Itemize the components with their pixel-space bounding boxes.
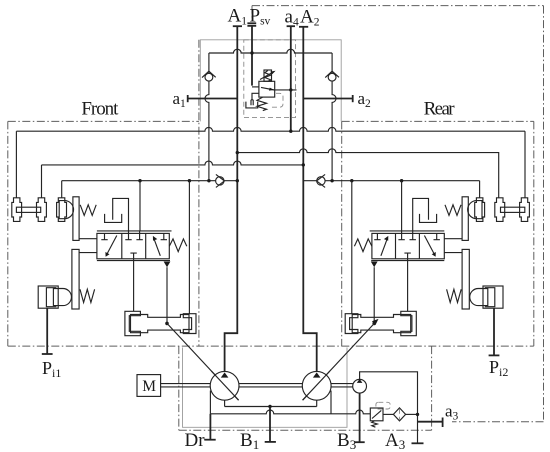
lower actuator piston cap D r <box>470 289 488 306</box>
svg-text:Dr: Dr <box>185 430 206 451</box>
port Pi1 line <box>46 308 48 354</box>
motor M box <box>137 375 161 397</box>
wire: filter to A3 rail <box>406 413 418 415</box>
valve V2 pilot drop from triangle <box>373 267 375 323</box>
port a2 tick <box>352 95 354 102</box>
port a3 line <box>418 421 443 423</box>
relief drain tank cup <box>246 102 258 108</box>
actuator end plate <box>73 197 79 241</box>
valve V1 cell1 arrow <box>107 236 117 255</box>
port plug Psv double bar <box>247 23 256 26</box>
valve V1 drop to linkage <box>133 259 135 312</box>
port tick A1 <box>233 25 242 27</box>
relief valve Psv: inlet elbow <box>252 86 259 88</box>
valve V2 right stubs to pilot plate <box>444 239 462 253</box>
lower actuator inner sleeve r <box>485 288 495 307</box>
actuator rod r <box>501 207 525 212</box>
lower actuator box <box>38 286 58 308</box>
port Psv rail <box>251 26 253 86</box>
port a1 line <box>188 98 238 100</box>
check valve seat top-left <box>202 71 216 77</box>
pump P2 triangle <box>313 372 321 377</box>
relief valve spring in box <box>265 71 271 82</box>
actuator spring W upper-left <box>80 205 96 216</box>
wire: drain line B with hops <box>210 410 370 414</box>
port a2 line <box>303 98 352 100</box>
port tick a4 <box>287 25 295 27</box>
port a4 rail <box>290 26 292 131</box>
check valve ball top-left <box>205 73 213 81</box>
pilot pump circle <box>353 379 367 393</box>
svg-text:Rear: Rear <box>424 99 456 120</box>
port Pi2 tick <box>489 354 500 356</box>
actuator bracket2 <box>37 198 47 222</box>
linkage spool dumbbell r <box>352 315 411 333</box>
swash link diagonal to pump1 <box>167 323 239 400</box>
pump P2 circle <box>302 371 331 400</box>
relief valve pilot dashed loop <box>272 93 284 107</box>
boundary: rear box top edge <box>342 120 534 122</box>
valve V2 cell2 blocked ports <box>398 233 416 258</box>
actuator piston cap D right <box>468 201 482 219</box>
pump group grey box <box>183 348 348 428</box>
port Pi2 line <box>493 308 495 355</box>
lower actuator plate <box>72 249 79 309</box>
lower actuator piston cap D <box>53 289 71 306</box>
valve V2 spring left <box>354 239 372 252</box>
lower actuator box r <box>483 286 503 308</box>
port B1 drop <box>269 407 271 442</box>
wire: bus1 left drop to actuator bracket1 <box>15 131 17 198</box>
actuator bracket3r <box>475 198 485 222</box>
port a1 tick <box>187 95 189 102</box>
valve V2 dividers <box>396 233 420 258</box>
wire: drop bus3r to V2 pilot line <box>401 181 403 231</box>
wire: pilot bus1 y=131.2 <box>16 127 525 131</box>
junction dot right linkage <box>372 322 376 326</box>
port a3 tick <box>442 418 444 428</box>
wire: pump1 case drain <box>209 391 211 414</box>
port B3 tick <box>355 441 365 443</box>
valve V1 cell3 blocked port T <box>161 233 167 239</box>
boundary: front box left edge <box>7 121 9 346</box>
actuator bracket3 <box>57 198 67 222</box>
svg-text:Front: Front <box>81 99 119 120</box>
relief valve adjust arrow <box>260 72 274 80</box>
valve V1 body <box>97 233 169 258</box>
relief valve body <box>259 81 275 97</box>
junction dot filter line <box>416 413 419 416</box>
check valve seat mid-right <box>317 174 326 187</box>
inlet block grey outline <box>200 40 341 122</box>
pilot valve grey dashed box <box>244 40 296 118</box>
valve V1 pilot triangle <box>164 262 171 268</box>
wire: pump2 case drain <box>330 391 332 414</box>
linkage left C bracket <box>125 311 140 335</box>
relief valve pilot spring box <box>264 70 272 81</box>
actuator spring W upper-right <box>445 205 461 216</box>
boundary: pump box left edge <box>178 346 180 430</box>
junction dot B1 <box>268 405 271 408</box>
redraw swash diagonal over pump1 <box>212 371 239 400</box>
pilot relief arrow <box>372 410 381 418</box>
boundary: outer box bottom-right edge to a3 <box>452 421 544 423</box>
actuator rod <box>16 207 40 212</box>
displacement control symbol left: stem <box>113 198 129 231</box>
valve V2 cell1 arrow <box>381 238 388 256</box>
port B3 drop from pilot pump <box>359 393 361 442</box>
right check rail with hop over a2 line <box>332 53 336 181</box>
check valve ball mid-left <box>216 177 224 185</box>
displacement control symbol left: cup <box>105 214 122 223</box>
actuator piston cap D <box>59 201 73 219</box>
boundary: pump box bottom edge <box>179 429 432 431</box>
valve V1 top stubs <box>129 231 140 234</box>
wire: P1 pilot line y=152.6 to right actuator <box>237 149 498 198</box>
svg-text:M: M <box>142 378 156 395</box>
redraw swash diagonal over pump2 <box>303 371 330 400</box>
valve V1 cell1 blocked port T <box>101 233 107 239</box>
linkage right C bracket r <box>401 311 417 335</box>
valve V1 cell3 arrow <box>154 238 161 256</box>
port Pi1 tick <box>42 353 53 355</box>
valve V2 cell3 blocked port T <box>434 233 440 239</box>
wire: pilot line y=180.7 right section <box>303 180 479 182</box>
wire: drop bus3 to V1 pilot line <box>139 181 141 231</box>
port A1 rail down to pump1 <box>225 26 238 371</box>
check valve ball top-right <box>328 73 336 81</box>
actuator bracket1 <box>12 198 22 222</box>
shaft M to pump1 <box>161 384 211 387</box>
valve V1 pilot drop from triangle <box>166 267 168 323</box>
displacement control symbol right: cup <box>420 214 437 223</box>
wire: pump2 bottom stub <box>316 400 318 406</box>
valve V1 left stubs to pilot plate <box>79 239 97 253</box>
shaft pump1 to pump2 <box>239 384 302 387</box>
valve V2 cell3 arrow <box>424 236 434 255</box>
wire: bus2 left drop to actuator bracket2 <box>41 165 43 198</box>
left check rail with hop over a1 line <box>205 53 209 181</box>
pilot relief spring below <box>372 421 378 427</box>
port Dr drop <box>209 414 211 440</box>
lower actuator spring W r <box>447 289 462 302</box>
wire: P2 pilot line y=164.9 to left actuator <box>42 161 304 165</box>
lower actuator spring W <box>80 289 95 302</box>
junction dots <box>138 179 141 182</box>
valve V2 bottom line <box>371 260 444 262</box>
displacement control symbol right: stem <box>413 198 429 231</box>
valve V1 top pilot line <box>97 230 172 232</box>
boundary: Psv stub on outer box <box>251 6 253 22</box>
port A3 tick <box>412 442 424 444</box>
junction dot left linkage <box>165 322 169 326</box>
boundary: rear box left edge <box>341 121 343 346</box>
pump P1 circle <box>210 371 239 400</box>
lower actuator plate r <box>462 249 469 309</box>
actuator end plate right <box>462 197 468 241</box>
wire: drop to right linkage bracket <box>351 181 353 314</box>
shaft pump2 to pilot pump <box>331 384 353 387</box>
port B1 tick <box>265 441 276 443</box>
boundary: front box right edge <box>198 40 200 346</box>
boundary: pump box right edge <box>431 346 433 430</box>
port Dr tick <box>204 439 215 441</box>
boundary: outer box right edge <box>543 6 545 422</box>
valve V1 cell2 blocked ports <box>125 233 143 258</box>
pilot supply elbow over to A3 rail <box>360 372 418 444</box>
filter dashed center line <box>399 409 401 420</box>
wire: pump link line A <box>225 406 317 408</box>
valve V2 top stubs <box>402 231 413 234</box>
relief valve drain elbow <box>251 93 259 105</box>
valve V2 body <box>372 233 444 258</box>
valve V1 spring right <box>169 239 187 252</box>
relief valve outlet to a4 <box>275 89 297 91</box>
wire: pilot line y=180.7 left section <box>62 180 238 182</box>
filter diamond <box>393 408 405 421</box>
relief valve spring below <box>257 97 267 110</box>
pilot relief pilot dashed box <box>376 402 390 409</box>
valve V1 bottom line <box>97 260 170 262</box>
pilot pump triangle <box>357 379 363 383</box>
wire: bus1 right drop to actuator bracket <box>524 131 526 198</box>
wire: drop to left linkage bracket <box>188 181 190 314</box>
port A2 rail down to pump2 <box>303 27 316 372</box>
check valve ball mid-right <box>317 177 325 185</box>
wire: left pilot line drop to actuator cap <box>61 181 63 198</box>
relief valve flow arrow <box>261 87 275 90</box>
wire: relief to filter <box>383 413 393 415</box>
lower actuator inner sleeve <box>46 288 56 307</box>
pilot relief valve body <box>370 408 383 421</box>
linkage right C bracket <box>183 314 196 334</box>
actuator bracket1r <box>520 198 530 222</box>
check valve seat mid-left <box>216 174 225 187</box>
linkage left C bracket r <box>345 314 358 334</box>
valve V2 top pilot line <box>370 230 445 232</box>
actuator bracket2r <box>495 198 505 222</box>
boundary: outer pilot dash-dot box top edge <box>252 5 544 7</box>
boundary: sections bottom edge <box>8 345 534 347</box>
swash link diagonal to pump2 with arrow <box>303 321 377 401</box>
valve V2 pilot triangle <box>371 262 378 268</box>
valve V1 dividers <box>122 233 146 258</box>
pump P1 triangle <box>221 372 229 377</box>
wire: right pilot line drop to actuator cap <box>479 181 481 198</box>
linkage spool dumbbell <box>131 315 190 333</box>
port tick A2 <box>299 26 308 28</box>
boundary: rear box right edge <box>533 121 535 346</box>
wire: pump1 bottom stub <box>224 400 226 406</box>
valve V2 cell1 blocked port T <box>374 233 380 239</box>
valve V2 drop to linkage <box>407 259 409 312</box>
wire: top link line y=53 between check rails <box>209 49 332 53</box>
boundary: front box top edge <box>8 120 199 122</box>
check valve seat top-right <box>325 71 339 77</box>
